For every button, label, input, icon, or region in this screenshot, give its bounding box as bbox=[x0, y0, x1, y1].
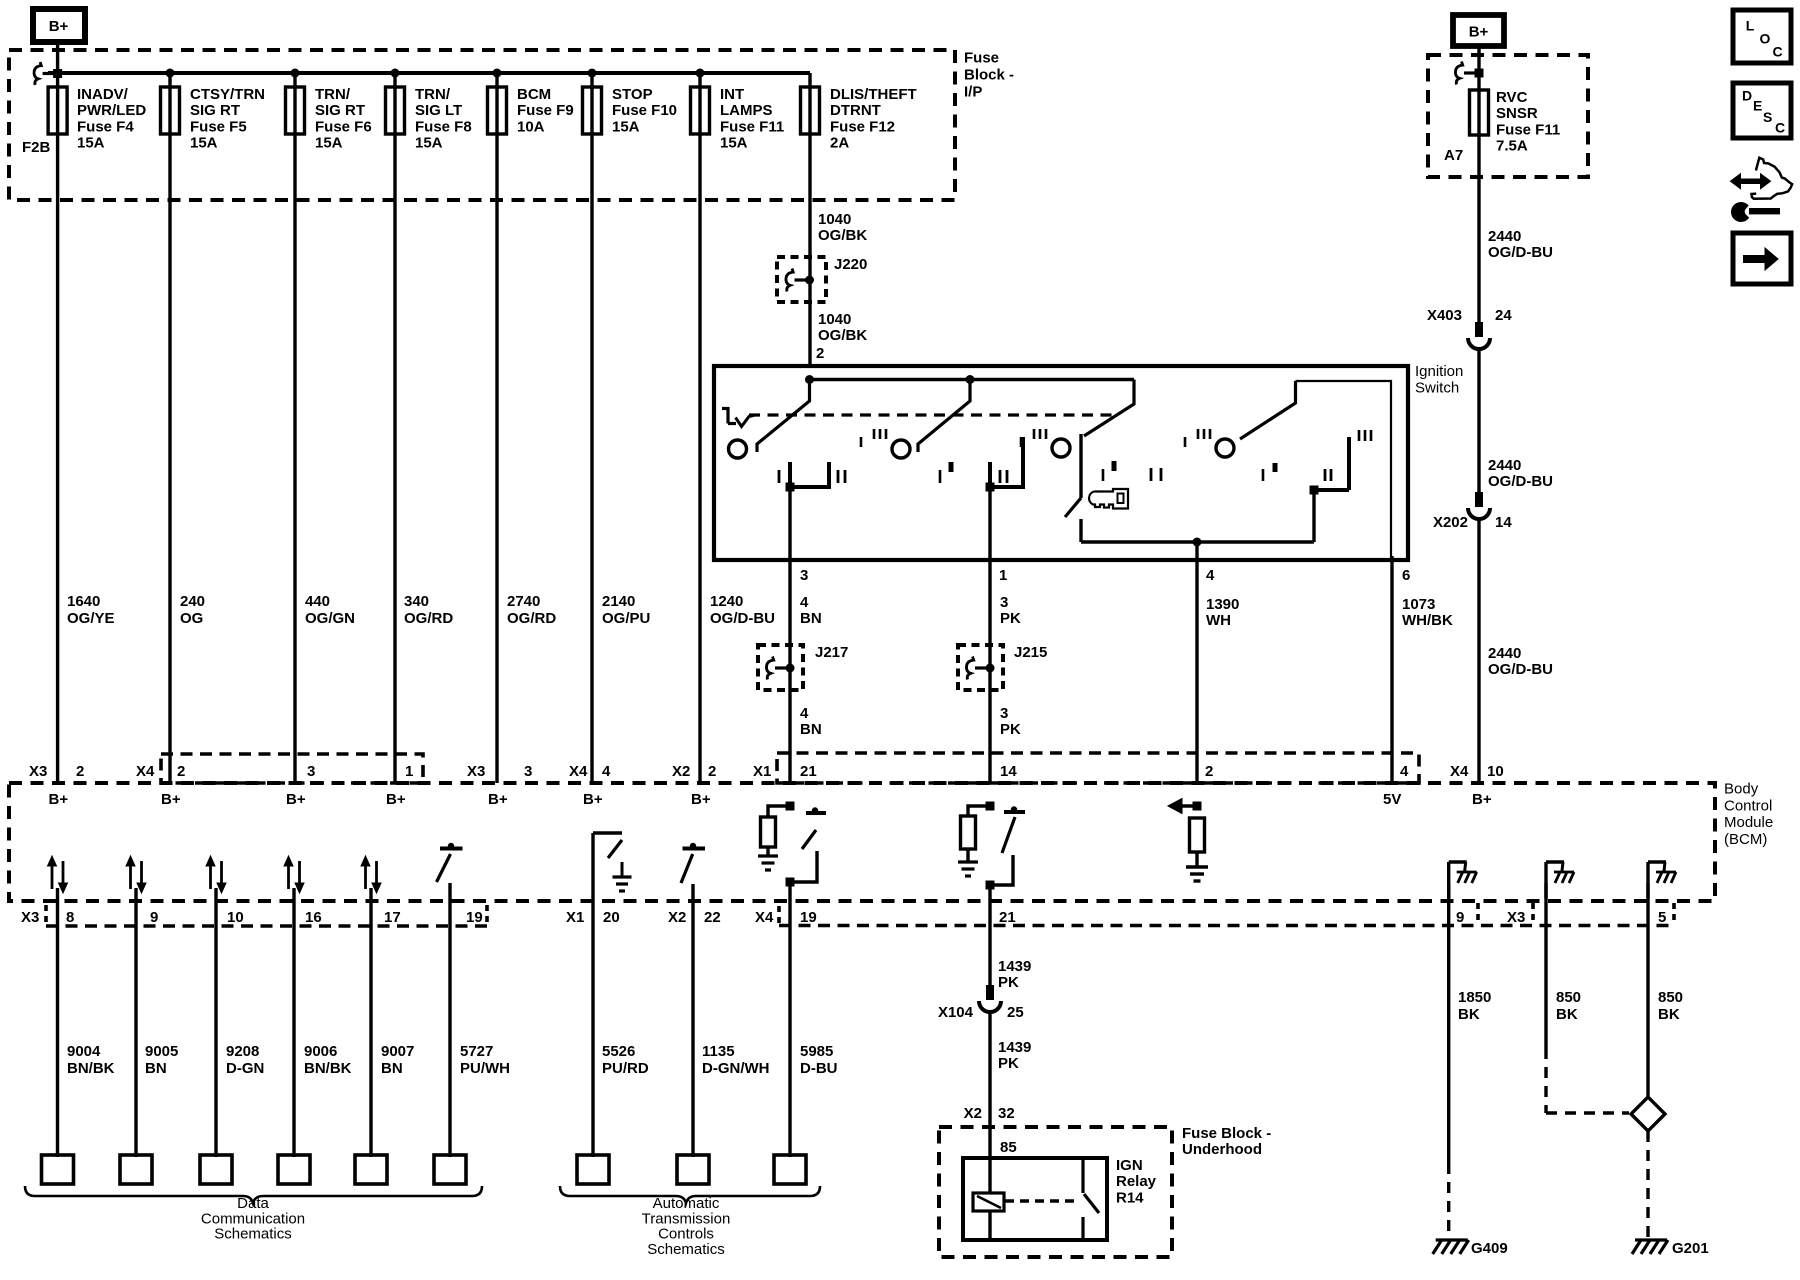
svg-text:BN/BK: BN/BK bbox=[304, 1060, 352, 1077]
svg-text:PK: PK bbox=[998, 974, 1019, 991]
svg-text:Fuse Block -: Fuse Block - bbox=[1182, 1125, 1271, 1142]
svg-text:3: 3 bbox=[524, 763, 532, 780]
svg-text:7.5A: 7.5A bbox=[1496, 138, 1528, 155]
svg-text:X3: X3 bbox=[467, 763, 485, 780]
svg-text:2: 2 bbox=[1205, 763, 1213, 780]
svg-text:C: C bbox=[1773, 43, 1783, 59]
svg-text:G201: G201 bbox=[1672, 1240, 1709, 1257]
svg-text:2: 2 bbox=[177, 763, 185, 780]
svg-text:X2: X2 bbox=[964, 1105, 982, 1122]
svg-text:9006: 9006 bbox=[304, 1043, 337, 1060]
svg-text:1040: 1040 bbox=[818, 311, 851, 328]
svg-text:14: 14 bbox=[1000, 763, 1017, 780]
svg-text:10A: 10A bbox=[517, 118, 545, 135]
svg-text:1390: 1390 bbox=[1206, 596, 1239, 613]
svg-text:B+: B+ bbox=[286, 791, 306, 808]
svg-text:Fuse F8: Fuse F8 bbox=[415, 118, 472, 135]
svg-text:G409: G409 bbox=[1471, 1240, 1508, 1257]
svg-text:15A: 15A bbox=[77, 135, 105, 152]
svg-text:INADV/: INADV/ bbox=[77, 86, 129, 103]
svg-text:(BCM): (BCM) bbox=[1724, 831, 1767, 848]
svg-text:21: 21 bbox=[800, 763, 817, 780]
svg-text:SIG RT: SIG RT bbox=[190, 102, 240, 119]
svg-text:2440: 2440 bbox=[1488, 457, 1521, 474]
svg-text:L: L bbox=[1746, 18, 1755, 34]
svg-text:5526: 5526 bbox=[602, 1043, 635, 1060]
svg-text:PK: PK bbox=[1000, 721, 1021, 738]
svg-text:5: 5 bbox=[1658, 909, 1666, 926]
svg-text:4: 4 bbox=[1206, 567, 1215, 584]
svg-text:INT: INT bbox=[720, 86, 744, 103]
svg-text:9007: 9007 bbox=[381, 1043, 414, 1060]
svg-text:10: 10 bbox=[1487, 763, 1504, 780]
svg-text:BK: BK bbox=[1556, 1006, 1578, 1023]
svg-text:OG/YE: OG/YE bbox=[67, 610, 115, 627]
svg-text:1640: 1640 bbox=[67, 593, 100, 610]
svg-text:B+: B+ bbox=[1469, 24, 1489, 41]
svg-text:DTRNT: DTRNT bbox=[830, 102, 881, 119]
svg-text:Control: Control bbox=[1724, 797, 1772, 814]
svg-text:Fuse F10: Fuse F10 bbox=[612, 102, 677, 119]
svg-text:C: C bbox=[1775, 120, 1785, 136]
svg-text:Fuse F4: Fuse F4 bbox=[77, 118, 134, 135]
svg-text:X202: X202 bbox=[1433, 514, 1468, 531]
svg-text:85: 85 bbox=[1000, 1139, 1017, 1156]
svg-text:BN: BN bbox=[145, 1060, 167, 1077]
svg-text:SNSR: SNSR bbox=[1496, 105, 1538, 122]
svg-text:X4: X4 bbox=[569, 763, 588, 780]
svg-text:X4: X4 bbox=[755, 909, 774, 926]
svg-text:WH/BK: WH/BK bbox=[1402, 612, 1453, 629]
svg-text:1135: 1135 bbox=[702, 1043, 735, 1060]
svg-text:15A: 15A bbox=[720, 135, 748, 152]
svg-text:BK: BK bbox=[1458, 1006, 1480, 1023]
svg-text:850: 850 bbox=[1658, 989, 1683, 1006]
svg-text:Fuse F11: Fuse F11 bbox=[1496, 121, 1560, 138]
svg-text:OG/BK: OG/BK bbox=[818, 327, 867, 344]
svg-text:BN: BN bbox=[381, 1060, 403, 1077]
svg-text:21: 21 bbox=[999, 909, 1016, 926]
svg-text:PU/WH: PU/WH bbox=[460, 1060, 510, 1077]
svg-text:Schematics: Schematics bbox=[214, 1226, 292, 1243]
svg-text:Fuse F12: Fuse F12 bbox=[830, 118, 895, 135]
svg-text:440: 440 bbox=[305, 593, 330, 610]
svg-text:J220: J220 bbox=[834, 256, 867, 273]
svg-text:X4: X4 bbox=[136, 763, 155, 780]
svg-text:1439: 1439 bbox=[998, 958, 1031, 975]
svg-text:10: 10 bbox=[227, 909, 244, 926]
svg-text:X3: X3 bbox=[21, 909, 39, 926]
svg-text:6: 6 bbox=[1402, 567, 1410, 584]
svg-text:BK: BK bbox=[1658, 1006, 1680, 1023]
svg-text:5727: 5727 bbox=[460, 1043, 493, 1060]
svg-text:X2: X2 bbox=[672, 763, 690, 780]
svg-text:CTSY/TRN: CTSY/TRN bbox=[190, 86, 265, 103]
svg-text:F2B: F2B bbox=[22, 139, 51, 156]
svg-text:STOP: STOP bbox=[612, 86, 653, 103]
svg-text:15A: 15A bbox=[315, 135, 343, 152]
svg-text:1850: 1850 bbox=[1458, 989, 1491, 1006]
svg-text:OG: OG bbox=[180, 610, 203, 627]
svg-text:19: 19 bbox=[800, 909, 817, 926]
svg-text:16: 16 bbox=[305, 909, 322, 926]
svg-text:B+: B+ bbox=[488, 791, 508, 808]
svg-text:X3: X3 bbox=[1507, 909, 1525, 926]
svg-text:9004: 9004 bbox=[67, 1043, 101, 1060]
svg-text:X1: X1 bbox=[753, 763, 771, 780]
svg-text:17: 17 bbox=[384, 909, 401, 926]
svg-text:D-BU: D-BU bbox=[800, 1060, 838, 1077]
svg-text:B+: B+ bbox=[49, 791, 69, 808]
svg-text:A7: A7 bbox=[1444, 147, 1463, 164]
svg-text:25: 25 bbox=[1007, 1004, 1024, 1021]
svg-text:DLIS/THEFT: DLIS/THEFT bbox=[830, 86, 917, 103]
svg-text:2740: 2740 bbox=[507, 593, 540, 610]
svg-text:Fuse: Fuse bbox=[964, 50, 999, 67]
svg-text:15A: 15A bbox=[612, 118, 640, 135]
svg-text:D-GN/WH: D-GN/WH bbox=[702, 1060, 770, 1077]
svg-text:5V: 5V bbox=[1383, 791, 1401, 808]
svg-text:20: 20 bbox=[603, 909, 620, 926]
svg-text:IGN: IGN bbox=[1116, 1157, 1143, 1174]
svg-text:X403: X403 bbox=[1427, 307, 1462, 324]
svg-text:OG/D-BU: OG/D-BU bbox=[1488, 244, 1553, 261]
svg-text:9: 9 bbox=[150, 909, 158, 926]
svg-text:E: E bbox=[1753, 98, 1762, 114]
svg-text:OG/GN: OG/GN bbox=[305, 610, 355, 627]
svg-text:4: 4 bbox=[1400, 763, 1409, 780]
svg-text:15A: 15A bbox=[190, 135, 218, 152]
svg-text:Body: Body bbox=[1724, 781, 1759, 798]
svg-text:Schematics: Schematics bbox=[647, 1241, 725, 1258]
svg-text:9005: 9005 bbox=[145, 1043, 178, 1060]
svg-text:B+: B+ bbox=[1472, 791, 1492, 808]
svg-text:1073: 1073 bbox=[1402, 596, 1435, 613]
svg-text:X104: X104 bbox=[938, 1004, 974, 1021]
svg-text:1439: 1439 bbox=[998, 1039, 1031, 1056]
svg-text:4: 4 bbox=[800, 594, 809, 611]
svg-text:2440: 2440 bbox=[1488, 645, 1521, 662]
svg-text:5985: 5985 bbox=[800, 1043, 833, 1060]
svg-text:TRN/: TRN/ bbox=[315, 86, 351, 103]
svg-text:Fuse F11: Fuse F11 bbox=[720, 118, 784, 135]
svg-text:1040: 1040 bbox=[818, 211, 851, 228]
svg-text:4: 4 bbox=[800, 705, 809, 722]
svg-text:4: 4 bbox=[602, 763, 611, 780]
svg-text:240: 240 bbox=[180, 593, 205, 610]
svg-text:BN: BN bbox=[800, 610, 822, 627]
svg-text:PK: PK bbox=[1000, 610, 1021, 627]
svg-text:I/P: I/P bbox=[964, 84, 982, 101]
svg-text:14: 14 bbox=[1495, 514, 1512, 531]
svg-text:OG/D-BU: OG/D-BU bbox=[710, 610, 775, 627]
svg-text:850: 850 bbox=[1556, 989, 1581, 1006]
svg-text:Underhood: Underhood bbox=[1182, 1141, 1262, 1158]
svg-text:Fuse F9: Fuse F9 bbox=[517, 102, 574, 119]
svg-text:SIG RT: SIG RT bbox=[315, 102, 365, 119]
svg-text:X1: X1 bbox=[566, 909, 584, 926]
svg-text:BN: BN bbox=[800, 721, 822, 738]
svg-text:1: 1 bbox=[999, 567, 1007, 584]
svg-text:3: 3 bbox=[1000, 705, 1008, 722]
svg-text:J217: J217 bbox=[815, 644, 848, 661]
svg-text:BN/BK: BN/BK bbox=[67, 1060, 115, 1077]
svg-text:SIG LT: SIG LT bbox=[415, 102, 462, 119]
svg-text:B+: B+ bbox=[691, 791, 711, 808]
svg-text:D: D bbox=[1742, 88, 1752, 104]
svg-text:2: 2 bbox=[816, 345, 824, 362]
svg-text:1: 1 bbox=[405, 763, 413, 780]
svg-text:24: 24 bbox=[1495, 307, 1512, 324]
svg-text:2: 2 bbox=[708, 763, 716, 780]
svg-text:15A: 15A bbox=[415, 135, 443, 152]
svg-text:1240: 1240 bbox=[710, 593, 743, 610]
svg-text:Fuse F5: Fuse F5 bbox=[190, 118, 247, 135]
svg-text:PU/RD: PU/RD bbox=[602, 1060, 649, 1077]
svg-text:Relay: Relay bbox=[1116, 1173, 1157, 1190]
svg-text:X2: X2 bbox=[668, 909, 686, 926]
svg-text:OG/D-BU: OG/D-BU bbox=[1488, 661, 1553, 678]
svg-text:Block -: Block - bbox=[964, 67, 1014, 84]
svg-text:3: 3 bbox=[1000, 594, 1008, 611]
svg-text:BCM: BCM bbox=[517, 86, 551, 103]
svg-text:J215: J215 bbox=[1014, 644, 1047, 661]
svg-text:RVC: RVC bbox=[1496, 89, 1528, 106]
svg-text:19: 19 bbox=[466, 909, 483, 926]
svg-text:B+: B+ bbox=[49, 18, 69, 35]
svg-text:TRN/: TRN/ bbox=[415, 86, 451, 103]
svg-text:Switch: Switch bbox=[1415, 380, 1459, 397]
svg-text:X4: X4 bbox=[1450, 763, 1469, 780]
svg-text:OG/PU: OG/PU bbox=[602, 610, 650, 627]
svg-text:OG/D-BU: OG/D-BU bbox=[1488, 473, 1553, 490]
svg-text:3: 3 bbox=[800, 567, 808, 584]
svg-text:B+: B+ bbox=[583, 791, 603, 808]
svg-text:32: 32 bbox=[998, 1105, 1015, 1122]
svg-text:OG/BK: OG/BK bbox=[818, 227, 867, 244]
svg-text:OG/RD: OG/RD bbox=[404, 610, 453, 627]
svg-text:2: 2 bbox=[76, 763, 84, 780]
svg-text:PK: PK bbox=[998, 1055, 1019, 1072]
svg-text:22: 22 bbox=[704, 909, 721, 926]
svg-text:2440: 2440 bbox=[1488, 228, 1521, 245]
svg-text:Module: Module bbox=[1724, 814, 1773, 831]
svg-text:PWR/LED: PWR/LED bbox=[77, 102, 146, 119]
svg-text:Fuse F6: Fuse F6 bbox=[315, 118, 372, 135]
svg-text:9: 9 bbox=[1456, 909, 1464, 926]
svg-text:OG/RD: OG/RD bbox=[507, 610, 556, 627]
svg-text:X3: X3 bbox=[29, 763, 47, 780]
svg-text:2A: 2A bbox=[830, 135, 849, 152]
svg-text:O: O bbox=[1760, 31, 1771, 47]
svg-text:Ignition: Ignition bbox=[1415, 363, 1463, 380]
svg-text:WH: WH bbox=[1206, 612, 1231, 629]
svg-text:D-GN: D-GN bbox=[226, 1060, 264, 1077]
svg-text:340: 340 bbox=[404, 593, 429, 610]
svg-text:LAMPS: LAMPS bbox=[720, 102, 773, 119]
svg-text:9208: 9208 bbox=[226, 1043, 259, 1060]
svg-text:3: 3 bbox=[307, 763, 315, 780]
svg-text:2140: 2140 bbox=[602, 593, 635, 610]
svg-text:B+: B+ bbox=[386, 791, 406, 808]
svg-text:S: S bbox=[1763, 109, 1772, 125]
svg-text:R14: R14 bbox=[1116, 1189, 1144, 1206]
svg-text:B+: B+ bbox=[161, 791, 181, 808]
svg-text:8: 8 bbox=[66, 909, 74, 926]
